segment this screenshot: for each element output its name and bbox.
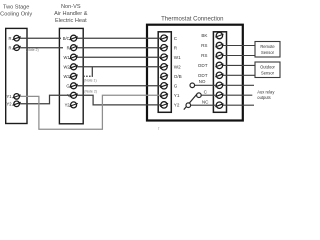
thermostat outer box <box>147 25 243 121</box>
svg-text:(Note 2): (Note 2) <box>84 90 97 94</box>
svg-text:Y1: Y1 <box>174 93 180 98</box>
svg-text:Outdoor: Outdoor <box>260 64 275 69</box>
thermostat terminal RS 1 <box>201 42 223 48</box>
svg-text:Remote: Remote <box>260 44 275 49</box>
svg-text:Cooling Only: Cooling Only <box>0 12 32 18</box>
thermostat terminal NC <box>202 100 224 109</box>
svg-text:Y: Y <box>67 93 70 98</box>
outdoor sensor box <box>255 62 280 78</box>
relay contact C <box>197 93 202 98</box>
thermostat left terminal strip <box>158 32 171 113</box>
svg-text:O/B: O/B <box>174 74 182 79</box>
remote sensor box <box>255 42 280 58</box>
thermostat terminal R <box>160 45 178 51</box>
wire: relay NC contact to strip <box>191 104 217 106</box>
thermostat terminal W2 <box>160 64 181 70</box>
svg-text:R: R <box>9 45 12 50</box>
svg-text:W1: W1 <box>174 55 181 60</box>
relay switch arm <box>184 94 197 110</box>
svg-text:B/C: B/C <box>63 36 70 41</box>
air handler terminal W3 <box>63 73 77 79</box>
thermostat terminal ODT 1 <box>198 62 224 68</box>
thermostat terminal G <box>160 83 178 89</box>
svg-text:ODT: ODT <box>198 63 208 68</box>
condenser terminal R (top) <box>9 35 21 41</box>
svg-text:Sensor: Sensor <box>261 50 275 55</box>
wire: net R1 (condenser R - air handler B/C - thermostat C) <box>19 37 161 39</box>
svg-text:Air Handler &: Air Handler & <box>54 11 88 17</box>
svg-text:(Note 2): (Note 2) <box>26 48 39 52</box>
thermostat right terminal strip <box>213 32 226 113</box>
air handler terminal G <box>66 83 77 89</box>
wire: dashed W3 stub (note 1) <box>83 75 92 77</box>
relay contact NO <box>190 83 195 88</box>
thermostat terminal ODT 2 <box>198 72 224 78</box>
wire: relay C contact to strip <box>201 94 216 96</box>
svg-text:G: G <box>66 83 69 88</box>
svg-text:outputs: outputs <box>257 95 270 100</box>
wire: RS sensor wire 1 <box>223 45 255 47</box>
wire: net W1 (air handler W1 - thermostat W1) <box>77 56 161 58</box>
svg-text:Sensor: Sensor <box>261 70 275 75</box>
thermostat terminal O/B <box>160 73 182 79</box>
svg-text:W2: W2 <box>174 65 181 70</box>
wire: ODT sensor wire 1 <box>223 64 255 66</box>
thermostat terminal Y2 <box>160 102 180 108</box>
thermostat terminal Y1 <box>160 92 180 98</box>
svg-text:W3: W3 <box>63 74 70 79</box>
svg-text:Two Stage: Two Stage <box>3 5 29 11</box>
svg-text:Y2: Y2 <box>174 103 180 108</box>
svg-text:BK: BK <box>201 33 208 38</box>
wire: RS sensor wire 2 <box>223 55 255 57</box>
air handler box (non-VS air handler & electric heat) <box>59 28 83 123</box>
svg-text:RS: RS <box>201 43 207 48</box>
thermostat terminal C (relay) <box>204 90 224 99</box>
wire: aux relay NO output <box>223 84 254 86</box>
air handler terminal Y (note 2) <box>67 92 78 98</box>
svg-text:ODT: ODT <box>198 73 208 78</box>
svg-text:G: G <box>174 84 178 89</box>
wire: ODT sensor wire 2 <box>223 74 255 76</box>
wire: aux relay C output <box>223 94 253 96</box>
wire: net R2 (condenser R note2 - air handler R - thermostat R) <box>19 47 161 49</box>
svg-text:Non-VS: Non-VS <box>61 4 81 10</box>
svg-text:Aux relay: Aux relay <box>257 90 275 95</box>
title: Two Stage Cooling Only <box>0 5 32 18</box>
condenser terminal Y2 <box>6 101 20 107</box>
thermostat terminal RS 2 <box>201 52 223 58</box>
thermostat terminal NO <box>199 79 224 88</box>
label: aux relay outputs <box>257 90 275 101</box>
svg-text:Thermostat Connection: Thermostat Connection <box>161 17 223 23</box>
svg-text:Electric Heat: Electric Heat <box>55 18 87 24</box>
svg-text:Y2: Y2 <box>65 103 71 108</box>
title: Non-VS Air Handler & Electric Heat <box>54 4 88 24</box>
svg-text:NO: NO <box>199 79 206 84</box>
air handler terminal R <box>63 45 78 51</box>
wire: net Y1 gray routed (condenser Y1 - thermostat Y1) <box>19 95 161 129</box>
wire: relay NO contact to strip <box>195 84 216 86</box>
svg-text:Y1: Y1 <box>6 94 12 99</box>
svg-text:W1: W1 <box>63 55 70 60</box>
svg-text:RS: RS <box>201 53 207 58</box>
svg-text:W2: W2 <box>63 64 70 69</box>
condenser terminal Y1 <box>6 94 20 100</box>
wire: net W2 (air handler W2 - thermostat W2) <box>77 66 161 68</box>
condensing unit box (two stage cooling only) <box>6 28 27 123</box>
wire: aux relay NC output <box>223 104 254 106</box>
air handler terminal W2 <box>63 64 77 70</box>
svg-text:NC: NC <box>202 100 209 105</box>
svg-text:(Note 1): (Note 1) <box>84 78 97 82</box>
air handler terminal Y2 <box>65 102 78 108</box>
thermostat terminal C <box>160 35 178 41</box>
relay contact NC <box>186 103 191 108</box>
svg-text:R: R <box>67 45 70 50</box>
svg-text:Y2: Y2 <box>6 101 12 106</box>
air handler terminal W1 <box>63 54 77 60</box>
air handler terminal B/C <box>61 35 78 41</box>
thermostat terminal BK <box>201 32 223 38</box>
svg-text:R: R <box>9 36 12 41</box>
wire: net Y2 (condenser Y2 - air handler Y - thermostat Y2) <box>19 95 70 104</box>
wire: net G (air handler G - thermostat G) <box>77 85 161 87</box>
thermostat terminal W1 <box>160 54 181 60</box>
wire: W3 jog up to W2 net <box>91 67 93 77</box>
wire: air handler Y to thermostat Y2 segment <box>77 95 161 105</box>
condenser terminal R (note 2) <box>9 45 21 51</box>
